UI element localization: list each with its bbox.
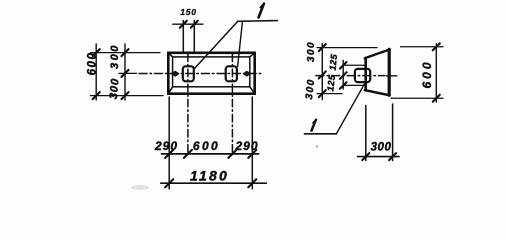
plan view outer outline [168, 53, 254, 94]
leader to label 1 (side view) [336, 82, 365, 133]
dim 150 extension lines [183, 21, 194, 53]
left dim ticks [93, 49, 100, 99]
leader underline (plan) [238, 20, 278, 23]
plan view inner outline [173, 57, 250, 87]
section mark left [172, 71, 179, 76]
side view extension lines [317, 47, 377, 49]
svg-text:300: 300 [306, 41, 317, 62]
left extension lines (plan) [91, 52, 161, 54]
ticks 1180 [165, 179, 256, 187]
bottom extension lines (plan) [169, 97, 252, 189]
leader underline (side view) [304, 133, 336, 135]
dim 150 line [173, 23, 203, 25]
side view 125/125 dim line [342, 61, 344, 90]
horizontal centerline (plan) [139, 73, 264, 75]
svg-text:125: 125 [328, 53, 340, 71]
vertical centerline through left hole [187, 54, 189, 155]
side view bottom edge [365, 90, 390, 95]
svg-text:290: 290 [154, 139, 178, 153]
dim 150 ticks [180, 21, 198, 28]
side view left ticks [319, 44, 326, 97]
side view right edge [388, 49, 391, 95]
svg-text:290: 290 [234, 139, 258, 153]
label 1 glyph (plan) [259, 4, 264, 18]
dim 600 (side view right) [435, 44, 437, 102]
svg-text:600: 600 [420, 59, 434, 88]
vertical centerline through right hole [231, 54, 233, 155]
ticks 290/600/290 [165, 150, 256, 158]
svg-text:600: 600 [87, 52, 99, 76]
svg-text:300: 300 [109, 43, 121, 69]
faint speck below side leader [316, 145, 318, 147]
svg-text:150: 150 [180, 7, 197, 17]
label 1 glyph (side view) [312, 120, 316, 131]
svg-text:125: 125 [325, 74, 337, 92]
side view top edge [365, 50, 390, 59]
hole left (plan) [183, 66, 194, 81]
svg-text:1180: 1180 [190, 168, 229, 184]
horizontal centerline (side view) [316, 75, 385, 77]
dim line 290/600/290 [162, 153, 259, 155]
svg-text:300: 300 [108, 77, 122, 99]
section mark right [244, 71, 251, 76]
leader lines to label 1 (plan) [194, 21, 237, 68]
side view left edge [364, 58, 367, 91]
left dim lines 600 and 300/300 (plan) [95, 44, 97, 100]
hole right (plan) [226, 66, 237, 81]
dim line 1180 [161, 182, 266, 184]
dim 300 (side view bottom) [366, 104, 393, 161]
side view 300/300 dim line [321, 44, 323, 100]
chamfer corner lines [168, 53, 254, 94]
svg-text:300: 300 [371, 142, 392, 154]
svg-text:300: 300 [304, 78, 317, 100]
svg-text:600: 600 [193, 139, 220, 153]
faint scan smudge near 1180 [131, 185, 149, 190]
hole (side view) [355, 69, 370, 82]
